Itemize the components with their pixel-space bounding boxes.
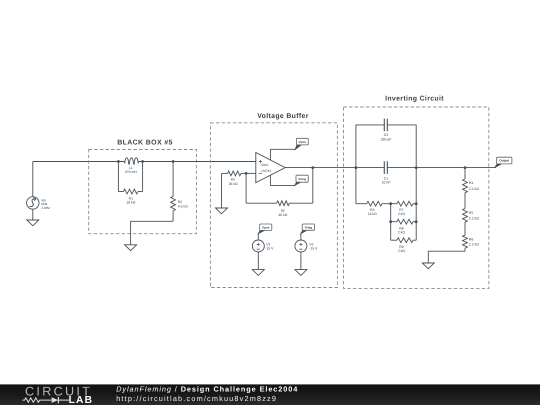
resistor Rs 16 k [241,172,246,174]
svg-text:Inverting Circuit: Inverting Circuit [385,95,444,102]
capacitor C1 10 nF (series) [383,161,385,174]
wire (R2 node to op-amp non-inverting input) [173,161,256,163]
op-amp positive supply pin wire [270,149,295,160]
node H (R3-R7 junction) [389,202,392,205]
wire (R2 bottom to ground) [131,221,174,245]
node D (feedback junction) [245,172,248,175]
svg-text:R2: R2 [178,200,182,204]
svg-text:LM741: LM741 [261,169,271,173]
svg-text:BLACK BOX #5: BLACK BOX #5 [117,139,173,146]
svg-text:470 mH: 470 mH [125,170,138,174]
wire (Vin to L1 node) [33,161,119,163]
ground (under V2) [295,270,307,276]
resistor R2 4.5 k [172,162,174,197]
resistor R6 2.2 k [464,222,466,235]
svg-text:2.2 kΩ: 2.2 kΩ [469,242,479,246]
resistor R8 2 k [390,204,392,222]
node A (L1 left junction) [117,160,120,163]
CircuitLab logo: resistor-diode squiggle [23,398,52,402]
node G (C loop right junction) [415,166,418,169]
voltage source V2 -15 V [300,234,302,240]
svg-text:330 pF: 330 pF [381,137,392,141]
svg-text:V1: V1 [266,242,270,246]
svg-text:Vpos: Vpos [299,140,307,144]
op-amp negative supply pin wire [270,175,295,185]
BLACK BOX #5 dashed border [89,150,197,234]
wire (R6 bottom to ground) [428,251,465,263]
svg-text:2 kΩ: 2 kΩ [398,249,406,253]
voltage source Vin (sine 1 kHz) [32,162,34,197]
svg-text:4.5 kΩ: 4.5 kΩ [178,204,188,208]
node C (R2 top junction) [172,160,175,163]
resistor R9 2 k [390,222,392,241]
inductor L1 470 mH [118,158,142,164]
node B (L1 right junction) [141,160,144,163]
svg-text:2.2 kΩ: 2.2 kΩ [469,217,479,221]
svg-text:R6: R6 [469,238,473,242]
footer bar [0,384,540,405]
op-amp OA4 LM741 [256,153,285,183]
flag Vneg (op-amp supply) [295,182,301,185]
svg-text:40 kΩ: 40 kΩ [278,213,287,217]
resistor R3 14 k [355,168,357,204]
capacitor C3 330 pF (top) [356,125,384,168]
ground (inverting circuit) [422,263,434,269]
wire (inverting input to feedback node) [246,172,256,174]
svg-text:DylanFleming / Design Challeng: DylanFleming / Design Challenge Elec2004 [116,384,298,393]
svg-text:16 kΩ: 16 kΩ [228,182,237,186]
node F (C loop left junction) [355,166,358,169]
svg-text:10 nF: 10 nF [382,181,391,185]
svg-text:Voltage Buffer: Voltage Buffer [257,113,308,120]
svg-text:Vneg: Vneg [298,177,306,181]
wire (L1 to R2 node) [143,161,174,163]
svg-text:OA4: OA4 [261,163,268,167]
svg-text:R4: R4 [469,181,473,185]
ground (under V1) [252,270,264,276]
svg-text:Rs: Rs [231,177,235,181]
flag Output [495,164,502,168]
Inverting Circuit dashed border [344,107,489,288]
ground (black box) [125,245,137,251]
svg-text:R5: R5 [469,211,473,215]
svg-text:14 kΩ: 14 kΩ [368,212,377,216]
wire (right rail of R network) [415,168,417,241]
resistor R1 10 k (parallel with L1) [117,162,119,192]
svg-text:2.2 kΩ: 2.2 kΩ [469,187,479,191]
svg-text:10 kΩ: 10 kΩ [126,200,135,204]
svg-text:V2: V2 [309,242,313,246]
svg-text:2 kΩ: 2 kΩ [398,212,406,216]
resistor R4 2.2 k [464,168,466,179]
Voltage Buffer dashed border [210,123,337,288]
voltage source V1 15 V [257,234,259,240]
svg-text:-15 V: -15 V [309,247,318,251]
svg-text:1 kHz: 1 kHz [41,206,50,210]
resistor Rf 40 k (feedback) [245,173,247,203]
resistor R5 2.2 k [464,193,466,209]
ground (under Rs) [216,208,228,214]
svg-text:Vpos: Vpos [262,225,270,229]
node I (rail-R7 junction) [415,202,418,205]
svg-text:Output: Output [499,159,509,163]
flag Vpos (op-amp supply) [295,145,301,150]
svg-text:LAB: LAB [69,395,94,405]
wire (C1 to Output flag) [387,167,496,169]
svg-text:15 V: 15 V [266,247,274,251]
node E (output-feedback junction) [311,166,314,169]
svg-text:Vneg: Vneg [305,225,313,229]
wire (op-amp output to C1) [285,167,384,169]
node K (right rail-R8 junction) [415,220,418,223]
flag Vpos (V1) [258,230,264,233]
node L (R4 top junction) [464,166,467,169]
node J (left rail-R8 junction) [389,220,392,223]
resistor R7 2 k [391,203,397,205]
flag Vneg (V2) [301,230,307,234]
svg-text:2 kΩ: 2 kΩ [398,230,406,234]
svg-text:http://circuitlab.com/cmkuu8v2: http://circuitlab.com/cmkuu8v2m8zz9 [116,394,277,403]
ground (under Vin) [27,220,39,226]
